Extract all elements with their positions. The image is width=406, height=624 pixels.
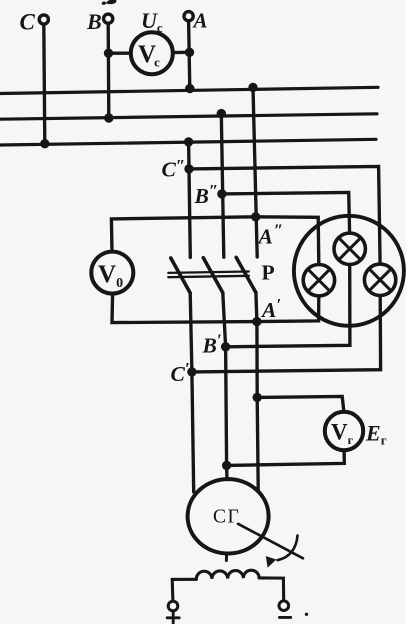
svg-text:A: A [192, 9, 208, 33]
svg-text:C: C [20, 10, 36, 35]
svg-text:B: B [86, 9, 102, 34]
svg-text:СГ: СГ [213, 507, 240, 528]
svg-text:P: P [262, 261, 275, 285]
